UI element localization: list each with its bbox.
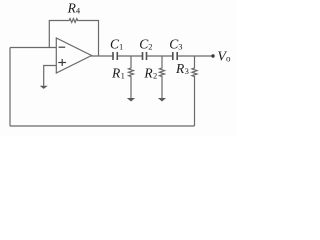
ground (R2) (158, 98, 166, 102)
capacitor C2 (143, 52, 147, 60)
svg-text:R1: R1 (111, 65, 125, 80)
wire C2 to C3 (147, 55, 173, 57)
ground (noninverting input) (40, 86, 48, 89)
capacitor C3 (173, 52, 177, 60)
svg-text:C3: C3 (169, 37, 182, 52)
resistor R4 (68, 19, 79, 23)
node Vo terminal dot (211, 54, 214, 57)
wire R1 branch (130, 56, 132, 67)
wire output (91, 55, 113, 57)
wire feedback bottom (10, 125, 195, 127)
svg-text:R2: R2 (143, 65, 157, 80)
svg-text:R3: R3 (175, 61, 189, 76)
svg-text:C1: C1 (110, 36, 123, 51)
wire C3 to output node (177, 55, 213, 57)
wire noninverting input (44, 66, 57, 86)
wire inverting input (10, 47, 56, 49)
capacitor C1 (113, 52, 117, 60)
wire R4 loop right branch (79, 21, 99, 57)
wire R3 branch (194, 56, 196, 67)
svg-text:C2: C2 (139, 37, 152, 52)
op-amp U1 (56, 38, 91, 73)
wire C1 to C2 (117, 55, 142, 57)
wire feedback left vertical (9, 48, 11, 127)
svg-text:R4: R4 (67, 0, 81, 15)
resistor R3 (192, 67, 197, 78)
wire R4 loop left branch (49, 21, 68, 48)
wire R3 to bottom feedback (194, 78, 196, 127)
svg-text:Vo: Vo (217, 50, 231, 65)
wire R2 to ground (161, 78, 163, 99)
op-amp minus sign (59, 46, 66, 48)
wire R1 to ground (130, 78, 132, 99)
resistor R2 (160, 67, 165, 78)
resistor R1 (129, 67, 134, 78)
op-amp plus sign (58, 59, 66, 66)
ground (R1) (127, 98, 135, 102)
wire R2 branch (161, 56, 163, 67)
